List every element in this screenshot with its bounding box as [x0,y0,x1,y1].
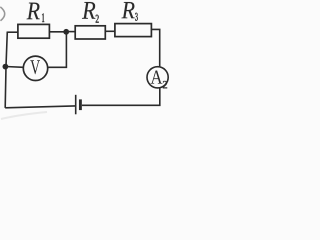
voltmeter V [23,56,47,80]
resistor R3 [115,24,151,37]
ammeter A2 [147,67,168,89]
resistor R1 [18,24,50,38]
wire: left rail top corner to R1 [7,31,18,33]
node B (junction dot on left rail) [3,64,9,70]
wire: voltmeter right to riser, up to node A [48,32,67,68]
wire: left rail (vertical) [5,32,7,108]
battery: negative plate (short, thick) [79,99,82,110]
wire: R1 to node A [49,31,66,33]
wire: node B to voltmeter [5,66,23,69]
node A (junction dot after R1) [63,29,69,35]
wire: R3 to top-right corner, down to ammeter [151,29,159,67]
wire: R2 to R3 [105,30,115,32]
wire: ammeter to bottom-right corner [82,88,160,106]
resistor R2 [75,26,105,39]
label R1 [27,3,45,22]
label R2 [82,2,99,23]
battery: positive plate (long, thin) [75,95,77,115]
stray text fragment ")" (cropped at left edge) [0,7,4,21]
wire: node A to R2 [66,31,75,33]
wire: battery to bottom-left corner [5,106,75,108]
label R3 [122,2,138,21]
